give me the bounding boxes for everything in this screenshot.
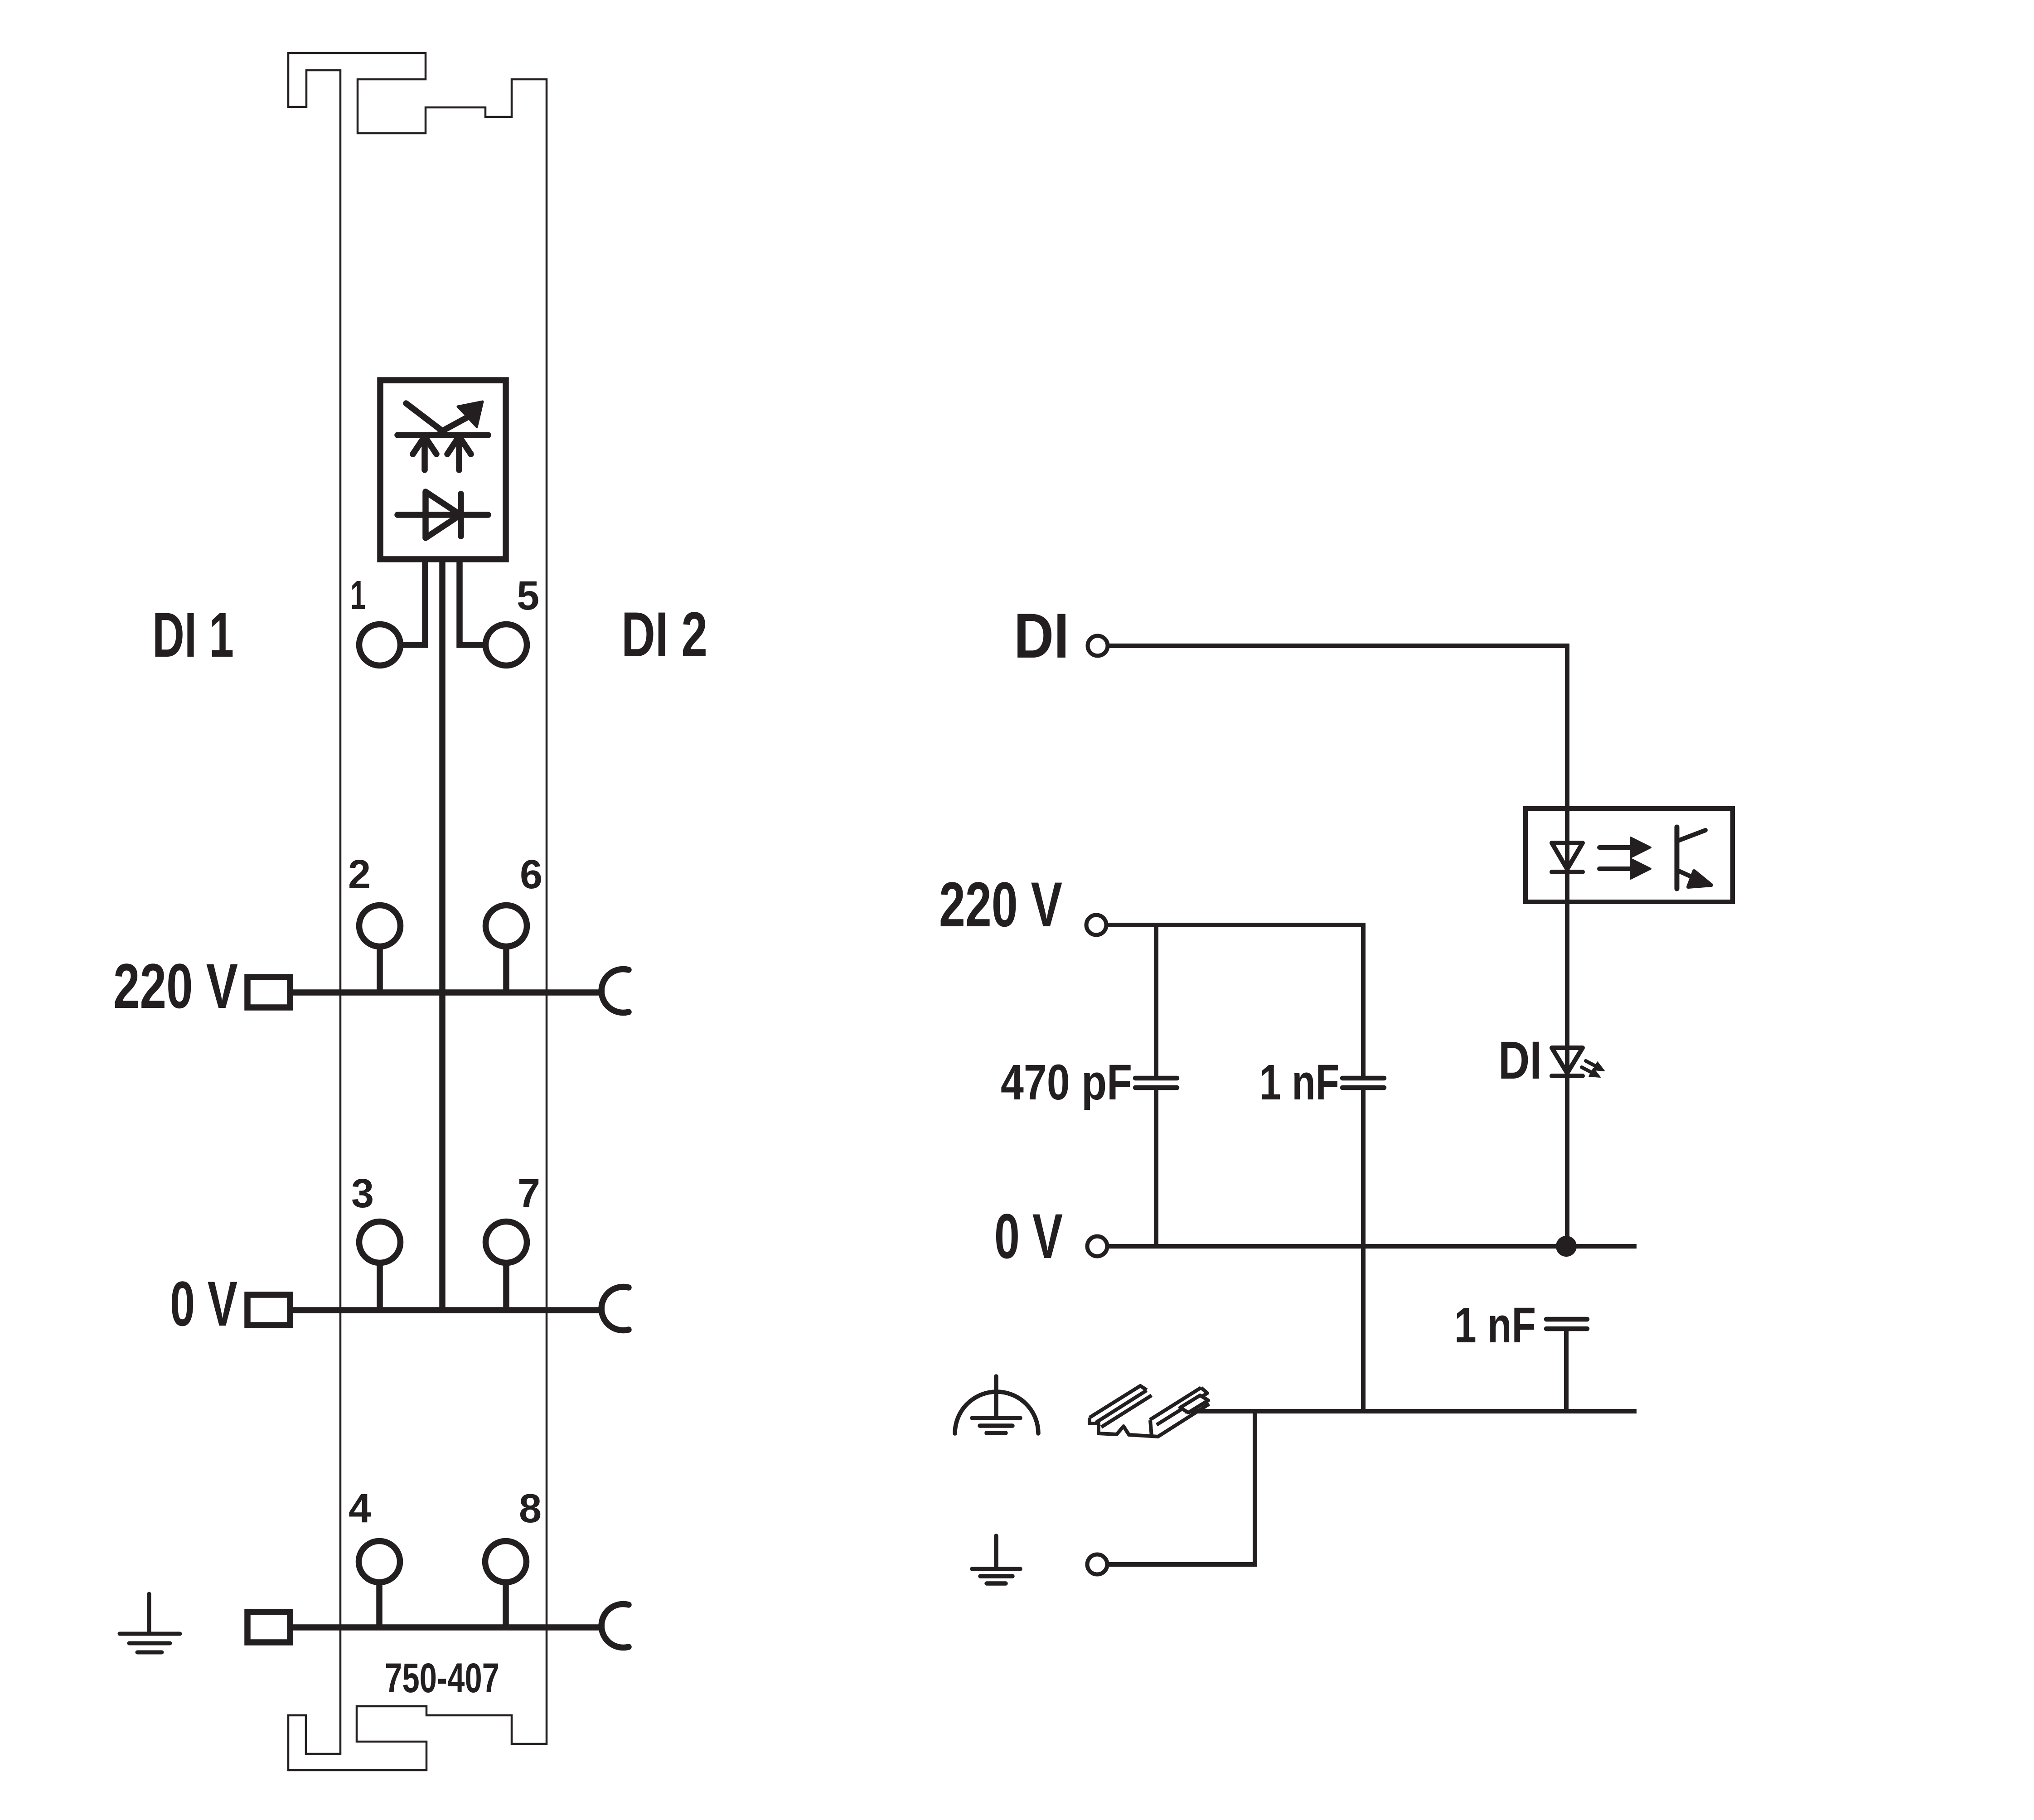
220V terminal circle bbox=[1086, 915, 1106, 935]
0V line bbox=[1109, 1244, 1637, 1249]
svg-text:5: 5 bbox=[517, 573, 539, 619]
U2 LED top bar bbox=[1552, 841, 1583, 845]
svg-text:1: 1 bbox=[350, 573, 366, 618]
DI terminal circle bbox=[1088, 636, 1108, 656]
lower earth terminal circle bbox=[1087, 1554, 1107, 1574]
svg-text:3: 3 bbox=[351, 1171, 374, 1216]
terminal circle 5 bbox=[486, 624, 527, 666]
junction node bbox=[1556, 1236, 1577, 1257]
svg-text:1 nF: 1 nF bbox=[1259, 1055, 1339, 1110]
U2 light arrow 1 bbox=[1599, 845, 1632, 850]
opto U1 diagonal arrow bbox=[441, 415, 472, 432]
svg-text:DI 2: DI 2 bbox=[621, 599, 707, 670]
right wall inner edge bbox=[1150, 1388, 1201, 1420]
earth bus line bbox=[290, 1624, 605, 1631]
svg-text:2: 2 bbox=[348, 852, 371, 897]
right wall bottom silhouette bbox=[1152, 1404, 1209, 1437]
LED DI light arrow 2 bbox=[1582, 1067, 1591, 1072]
svg-text:0 V: 0 V bbox=[170, 1268, 237, 1339]
svg-text:DI 1: DI 1 bbox=[152, 599, 234, 670]
terminal circle 6 bbox=[486, 905, 527, 947]
left wall outer edge bbox=[1090, 1386, 1147, 1418]
stem terminal 6 bbox=[503, 926, 509, 992]
wire through optocoupler to junction bbox=[1565, 902, 1569, 1246]
U2 phototransistor collector bbox=[1677, 830, 1705, 841]
terminal circle 4 bbox=[359, 1541, 400, 1583]
LED DI triangle bbox=[1552, 1048, 1583, 1073]
front profile: flange, floor with notch bbox=[1090, 1418, 1152, 1436]
opto U1 diode cathode bar bbox=[458, 494, 464, 536]
svg-text:4: 4 bbox=[349, 1486, 371, 1531]
earth circle symbol bbox=[955, 1376, 1038, 1433]
rail line bbox=[1185, 1409, 1637, 1413]
svg-text:DI: DI bbox=[1498, 1031, 1542, 1090]
svg-text:6: 6 bbox=[520, 852, 542, 897]
LED DI light arrow 1 bbox=[1586, 1061, 1595, 1066]
svg-text:8: 8 bbox=[519, 1486, 542, 1531]
capacitor 470 pF bbox=[1135, 1076, 1177, 1081]
stem terminal 2 bbox=[377, 926, 383, 992]
U2 wire inside bbox=[1565, 808, 1569, 902]
terminal circle 3 bbox=[359, 1222, 401, 1263]
capacitor 1 nF right bbox=[1546, 1317, 1587, 1322]
220V pad bbox=[247, 977, 290, 1007]
svg-text:750-407: 750-407 bbox=[385, 1655, 499, 1701]
wire middle bus from optocoupler to 0V bus bbox=[439, 559, 446, 1310]
U2 phototransistor emitter with arrow bbox=[1677, 870, 1697, 879]
left wall inner edge bbox=[1096, 1390, 1147, 1423]
220V bus line bbox=[290, 989, 605, 996]
stem terminal 7 bbox=[503, 1242, 509, 1310]
0V pad bbox=[247, 1295, 290, 1325]
earth bus socket arc bbox=[601, 1604, 629, 1648]
optocoupler U1 box bbox=[380, 380, 506, 559]
opto U1 up arrow B bbox=[456, 443, 462, 470]
capacitor 1 nF left bbox=[1342, 1076, 1384, 1081]
1nF lower wire to rail bbox=[1361, 1090, 1366, 1411]
right wall top outer edge bbox=[1157, 1388, 1207, 1425]
0V bus line bbox=[290, 1307, 605, 1313]
LED DI top bar bbox=[1552, 1046, 1583, 1050]
opto U1 diagonal line bbox=[406, 403, 442, 431]
left wall floor joint bbox=[1101, 1395, 1152, 1427]
U2 phototransistor base bar bbox=[1675, 827, 1680, 889]
ground symbol left of module bbox=[120, 1594, 180, 1652]
opto U1 up arrow A bbox=[421, 443, 428, 470]
svg-text:470 pF: 470 pF bbox=[1001, 1055, 1132, 1110]
terminal circle 7 bbox=[486, 1222, 527, 1263]
terminal circle 2 bbox=[359, 905, 401, 947]
wire from earth terminal to rail bbox=[1109, 1411, 1255, 1564]
opto U1 diode triangle bbox=[426, 492, 460, 538]
U2 light arrow 2 bbox=[1599, 866, 1632, 871]
opto U1 input symbol bar bbox=[397, 432, 488, 438]
terminal circle 8 bbox=[485, 1541, 527, 1583]
0V bus socket arc bbox=[601, 1287, 629, 1331]
earth pad bbox=[247, 1612, 290, 1642]
svg-text:220 V: 220 V bbox=[113, 950, 238, 1021]
optocoupler U2 box bbox=[1525, 808, 1733, 902]
svg-text:1 nF: 1 nF bbox=[1454, 1297, 1536, 1353]
opto U1 diode line bbox=[397, 512, 488, 518]
stem terminal 4 bbox=[376, 1562, 383, 1627]
1nF right lower wire bbox=[1564, 1331, 1569, 1411]
220V bus socket arc bbox=[601, 969, 629, 1013]
470pF lower wire to 0V bbox=[1154, 1090, 1158, 1246]
stem terminal 3 bbox=[377, 1242, 383, 1310]
LED DI cathode bar bbox=[1552, 1074, 1583, 1078]
wire pin5 from optocoupler to terminal 5 bbox=[460, 559, 506, 645]
220V wire to corner bbox=[1108, 925, 1363, 1076]
earth symbol lower bbox=[972, 1536, 1020, 1583]
U2 LED triangle bbox=[1552, 843, 1583, 869]
terminal circle 1 bbox=[359, 624, 401, 666]
wire pin1 from optocoupler to terminal 1 bbox=[380, 559, 425, 645]
svg-text:DI: DI bbox=[1014, 600, 1069, 671]
DI wire bbox=[1109, 646, 1567, 808]
U2 LED cathode bar bbox=[1552, 870, 1583, 874]
module 750-407 body outline bbox=[288, 53, 547, 1770]
stem terminal 8 bbox=[503, 1562, 509, 1627]
DIN rail flange tip bbox=[1180, 1395, 1208, 1413]
svg-text:7: 7 bbox=[518, 1171, 540, 1216]
svg-text:0 V: 0 V bbox=[994, 1200, 1063, 1272]
470pF tee wire bbox=[1154, 925, 1158, 1076]
0V terminal circle bbox=[1087, 1236, 1107, 1256]
DIN rail symbol bbox=[1090, 1386, 1209, 1437]
svg-text:220 V: 220 V bbox=[939, 869, 1062, 940]
